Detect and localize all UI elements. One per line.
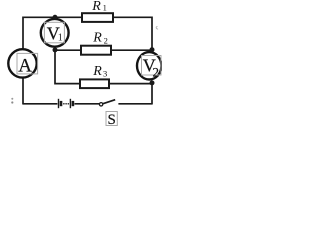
wire left vertical (A branch) [22,17,24,105]
battery cell1 short plate [60,101,63,106]
svg-text:R: R [92,64,102,79]
switch S lever [103,100,115,104]
resistor R1 [82,13,113,22]
resistor R2 [81,46,111,55]
wire right vertical upper (R1/R2 right node) [151,17,153,50]
label box V2 [142,56,162,76]
svg-text:1: 1 [103,2,107,12]
svg-text:1: 1 [58,33,63,44]
node dot top (V1 top junction) [53,15,58,20]
svg-text:R: R [91,0,101,14]
svg-text:S: S [108,112,116,127]
node dot V2 bottom junction [150,80,155,85]
scan speck left [11,98,13,100]
node dot V2 top junction [150,47,155,52]
battery cell2 short plate [72,101,75,106]
ammeter A [8,49,36,77]
wire row3 L-shape (R3 branch left) [55,50,152,83]
battery cell2 long plate [69,99,71,108]
svg-text:A: A [18,55,32,76]
svg-text:2: 2 [104,36,108,46]
wire bottom left (to battery) [23,103,57,105]
label box S [106,112,117,126]
svg-text:R: R [92,31,102,46]
wire bottom mid (battery to switch) [75,103,100,105]
wire row2 horizontal (R2 branch) [55,49,152,51]
voltmeter V1 [41,19,69,47]
wire top horizontal (node between A and R1/V1) [23,16,152,18]
wire right vertical lower (V2 to bottom corner) [151,83,153,105]
label box A [17,53,38,74]
resistor R3 [80,79,109,88]
label box V1 [44,22,64,43]
wire bottom right (switch to corner) [118,103,152,105]
svg-text:2: 2 [153,64,160,79]
switch S pivot [99,103,102,106]
scan speck right [156,26,158,29]
battery cell1 long plate [58,99,60,108]
node dot V1 bottom junction [53,47,58,52]
svg-text:3: 3 [103,69,107,79]
voltmeter V2 [137,52,161,79]
battery dots [63,103,65,105]
